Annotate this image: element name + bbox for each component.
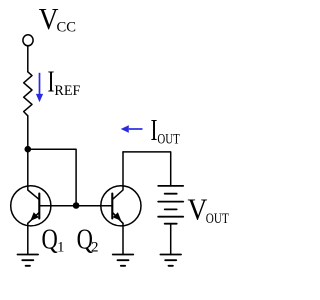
svg-text:2: 2 [91,239,99,255]
svg-text:OUT: OUT [206,211,229,227]
svg-text:Q: Q [42,225,58,256]
svg-text:1: 1 [57,239,65,255]
svg-text:REF: REF [54,83,80,99]
svg-text:CC: CC [57,19,77,35]
svg-text:OUT: OUT [157,131,179,147]
